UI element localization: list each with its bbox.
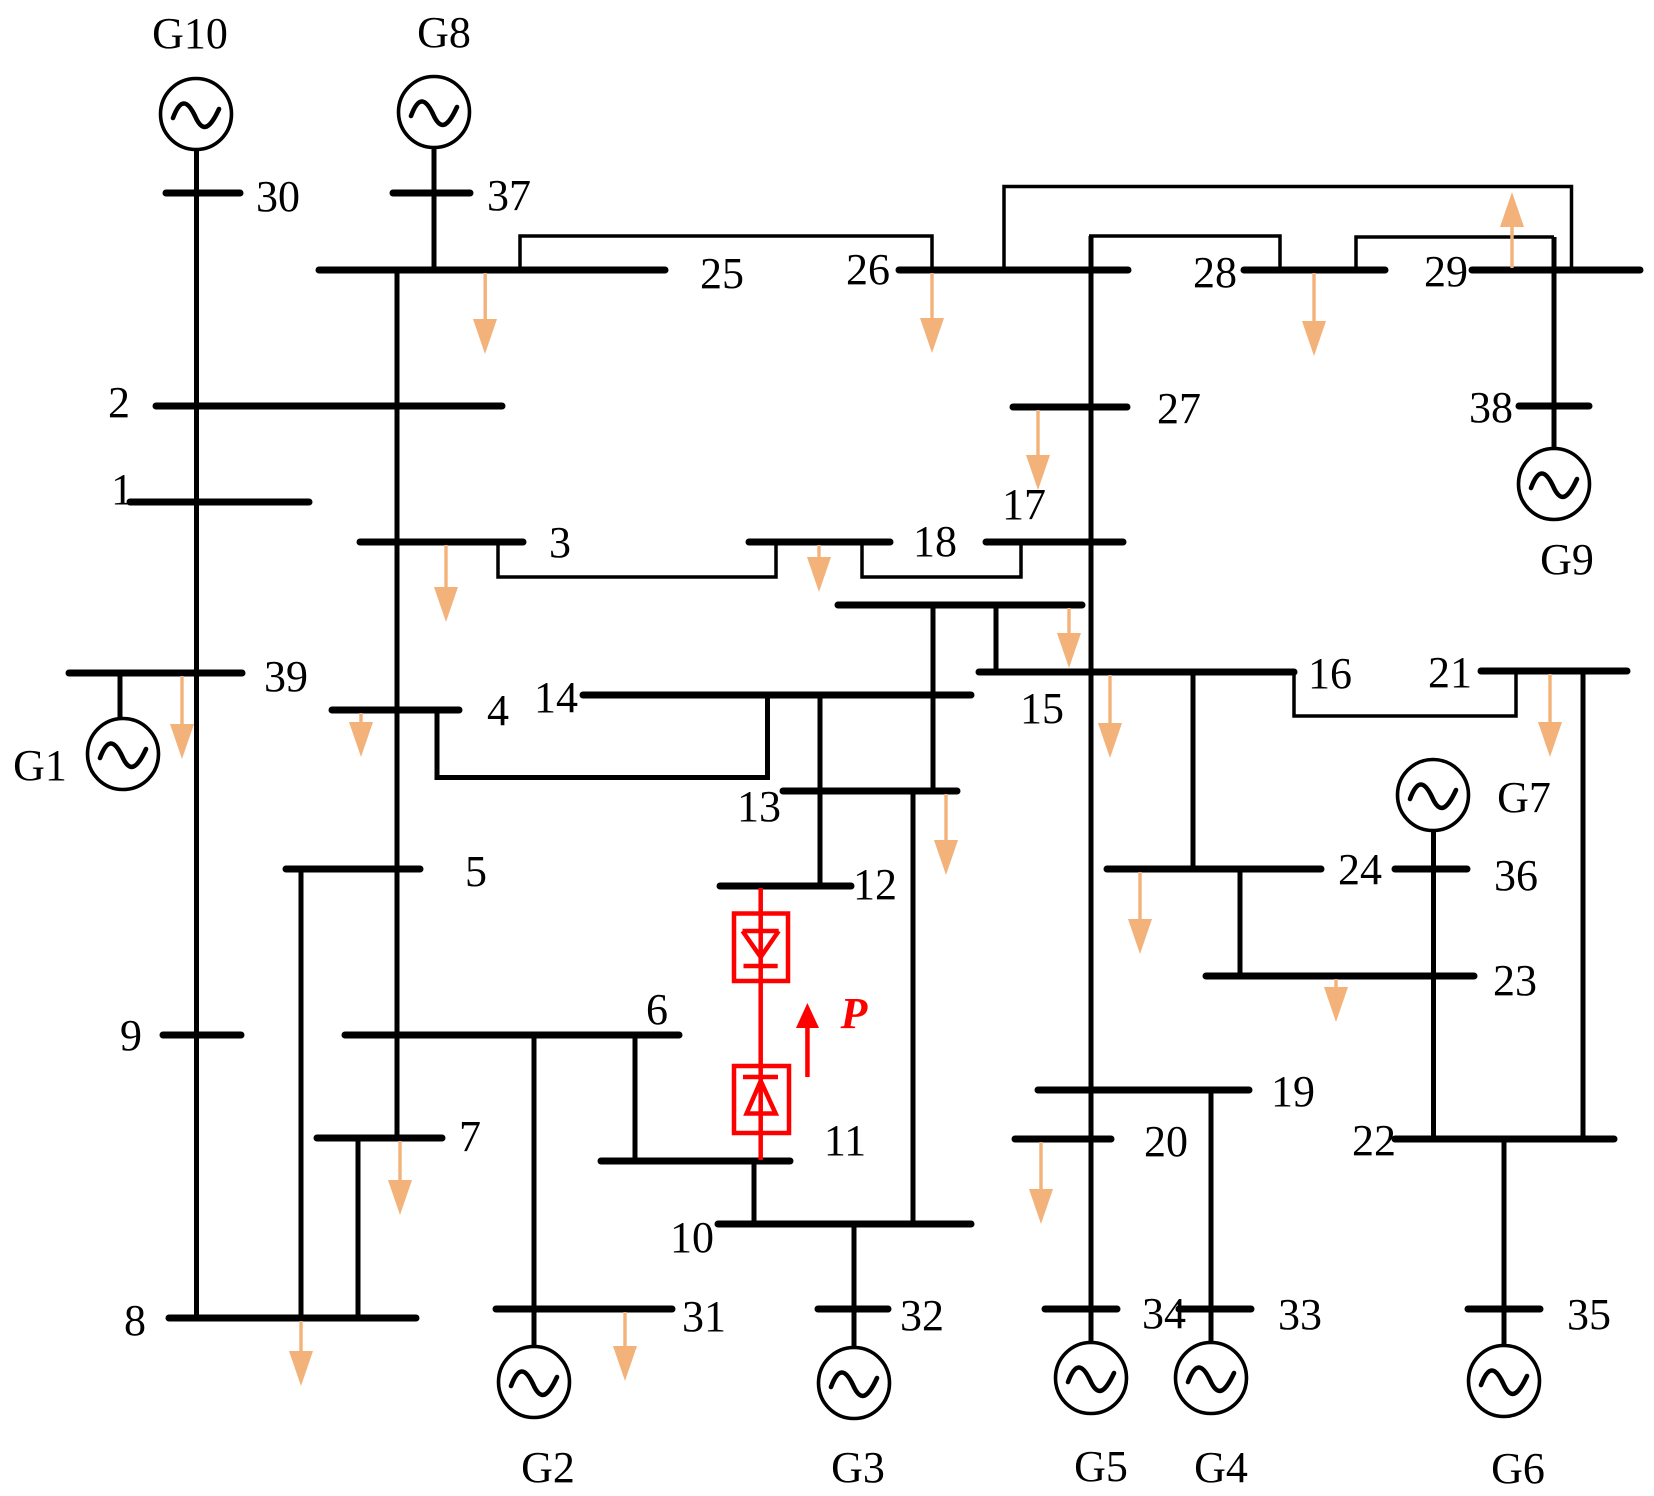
svg-text:29: 29: [1424, 247, 1468, 296]
svg-text:26: 26: [846, 245, 890, 294]
bus 39: [69, 670, 242, 677]
wire bus 28 to bus 29: [1356, 237, 1554, 270]
svg-text:24: 24: [1338, 845, 1382, 894]
svg-text:G10: G10: [152, 9, 228, 58]
bus 15 upper bar: [838, 602, 1082, 609]
bus 31: [496, 1306, 672, 1313]
bus 3: [360, 539, 523, 546]
bus 18: [749, 539, 890, 546]
svg-text:8: 8: [124, 1296, 146, 1345]
wire bus 11 to bus 10: [752, 1161, 757, 1224]
wire bus 16 to bus 21: [1294, 673, 1516, 716]
generator G5: [1056, 1343, 1127, 1414]
converter valve box upper (rectifier): [734, 914, 788, 982]
load arrow bus 29 (up): [1500, 192, 1524, 268]
generator G7: [1398, 760, 1469, 831]
wire bus 21 to bus 22: [1581, 671, 1586, 1139]
wire bus 15 upper bar to bus 16 bar: [994, 605, 999, 672]
wire bus 22 to bus 35 to G6: [1502, 1139, 1507, 1345]
wire bus 14 to bus 12 (through bus 13): [818, 695, 823, 886]
bus 21: [1481, 668, 1627, 675]
bus 25: [319, 267, 665, 274]
bus 7: [317, 1135, 442, 1142]
svg-text:16: 16: [1308, 649, 1352, 698]
bus 19: [1038, 1087, 1249, 1094]
wire bus 6 to bus 11: [633, 1035, 638, 1161]
wire bus 10 to bus 32 to G3: [852, 1224, 857, 1347]
wire G10 to bus 8 (through buses 30,2,1,39,9): [194, 150, 199, 1318]
svg-text:39: 39: [264, 652, 308, 701]
svg-text:34: 34: [1142, 1289, 1186, 1338]
generator G10: [161, 79, 232, 150]
load arrow bus 27: [1026, 410, 1050, 490]
bus 30: [166, 190, 240, 197]
svg-text:27: 27: [1157, 384, 1201, 433]
svg-text:G5: G5: [1074, 1442, 1128, 1491]
bus 29: [1472, 267, 1640, 274]
svg-text:G1: G1: [13, 741, 67, 790]
wire bus 4 to bus 14: [437, 695, 768, 778]
load arrow bus 3: [434, 545, 458, 622]
bus 5: [286, 866, 420, 873]
wire bus 12 to bus 11 (DC link): [758, 888, 763, 1160]
svg-text:25: 25: [700, 249, 744, 298]
load arrow bus 15 upper: [1057, 608, 1081, 668]
svg-text:17: 17: [1002, 480, 1046, 529]
load arrow bus 25: [473, 273, 497, 354]
svg-text:3: 3: [549, 518, 571, 567]
wire bus 6 to bus 31 to G2: [532, 1035, 537, 1346]
bus 28: [1244, 267, 1385, 274]
load arrow bus 16: [1098, 675, 1122, 758]
generator G2: [499, 1347, 570, 1418]
load arrow bus 18: [807, 545, 831, 592]
wire bus 26 to bus 29 (top long line): [1004, 187, 1572, 271]
svg-text:23: 23: [1493, 956, 1537, 1005]
bus 32: [818, 1306, 888, 1313]
wire bus 26 to G5 (through buses 27,17,16,19,20,34): [1089, 236, 1094, 1342]
bus 27: [1013, 404, 1127, 411]
wire bus 19 to bus 33 to G4: [1209, 1090, 1214, 1342]
generator G8: [399, 77, 470, 148]
wire bus 3 to bus 18: [498, 543, 776, 577]
svg-text:31: 31: [682, 1292, 726, 1341]
svg-text:18: 18: [913, 517, 957, 566]
svg-text:36: 36: [1494, 851, 1538, 900]
wire bus 29 link down to bus 38 and G9: [1552, 237, 1557, 450]
svg-text:G2: G2: [521, 1443, 575, 1492]
load arrow bus 39: [170, 676, 194, 759]
generator G6: [1469, 1346, 1540, 1417]
bus 34: [1045, 1306, 1117, 1313]
wire bus 18 to bus 17: [862, 543, 1021, 577]
load arrow bus 24: [1128, 872, 1152, 954]
wire bus 5 to bus 8: [299, 869, 304, 1318]
svg-text:32: 32: [900, 1291, 944, 1340]
bus 36: [1395, 866, 1467, 873]
bus 14: [583, 692, 971, 699]
svg-text:30: 30: [256, 172, 300, 221]
wire bus 25 to bus 26: [520, 236, 932, 270]
wire bus 7 to bus 8: [356, 1138, 361, 1318]
svg-text:33: 33: [1278, 1290, 1322, 1339]
svg-text:28: 28: [1193, 248, 1237, 297]
bus 13: [783, 788, 957, 795]
load arrow bus 26: [920, 273, 944, 353]
bus 11: [601, 1158, 790, 1165]
converter valve box lower (inverter): [734, 1066, 789, 1133]
generator G1: [88, 719, 159, 790]
svg-text:6: 6: [646, 985, 668, 1034]
bus 6: [345, 1032, 679, 1039]
svg-text:12: 12: [853, 860, 897, 909]
load arrow bus 20: [1029, 1142, 1053, 1224]
svg-text:11: 11: [824, 1116, 866, 1165]
svg-text:10: 10: [670, 1213, 714, 1262]
svg-text:37: 37: [487, 171, 531, 220]
wire G7 to bus 22 (through buses 36,23): [1431, 830, 1436, 1139]
bus 26: [899, 267, 1128, 274]
bus 24: [1107, 866, 1321, 873]
load arrow bus 13: [934, 794, 958, 875]
bus 17: [986, 539, 1123, 546]
load arrow bus 28: [1302, 273, 1326, 356]
svg-text:G8: G8: [417, 8, 471, 57]
svg-text:15: 15: [1020, 684, 1064, 733]
bus 12: [720, 883, 851, 890]
svg-text:35: 35: [1567, 1290, 1611, 1339]
load arrow bus 7: [388, 1141, 412, 1215]
bus 2: [156, 403, 502, 410]
load arrow bus 31: [613, 1312, 637, 1381]
wire G8 to bus 25 (through bus 37): [432, 148, 437, 270]
wire bus 24 to bus 23: [1238, 869, 1243, 976]
wire bus 16 to bus 24: [1191, 672, 1196, 869]
load arrow bus 4: [349, 713, 373, 757]
svg-text:7: 7: [459, 1112, 481, 1161]
bus 37: [393, 190, 470, 197]
bus 20: [1015, 1136, 1111, 1143]
svg-text:21: 21: [1428, 648, 1472, 697]
svg-text:G4: G4: [1194, 1443, 1248, 1492]
svg-text:38: 38: [1469, 383, 1513, 432]
generator G4: [1176, 1343, 1247, 1414]
generator G3: [819, 1348, 890, 1419]
svg-text:G7: G7: [1497, 773, 1551, 822]
bus 35: [1468, 1306, 1540, 1313]
bus 8: [169, 1315, 416, 1322]
svg-text:G6: G6: [1491, 1444, 1545, 1493]
wire bus 25 to bus 7 (through buses 2,3,5,6): [395, 270, 400, 1138]
svg-text:4: 4: [487, 686, 509, 735]
svg-text:1: 1: [111, 465, 133, 514]
bus 38: [1519, 403, 1589, 410]
svg-text:G9: G9: [1540, 535, 1594, 584]
svg-text:20: 20: [1144, 1117, 1188, 1166]
svg-text:14: 14: [534, 673, 578, 722]
bus 9: [163, 1032, 241, 1039]
bus 1: [130, 499, 309, 506]
svg-text:22: 22: [1352, 1116, 1396, 1165]
load arrow bus 8: [289, 1321, 313, 1386]
power flow arrow P: [796, 1003, 819, 1077]
bus 4: [332, 707, 459, 714]
svg-text:P: P: [840, 989, 869, 1038]
bus 10: [718, 1221, 971, 1228]
svg-text:13: 13: [737, 782, 781, 831]
bus 22: [1395, 1136, 1614, 1143]
wire bus 39 to G1: [118, 673, 123, 719]
load arrow bus 21: [1538, 674, 1562, 757]
wire bus 13 to bus 10: [911, 791, 916, 1224]
generator G9: [1519, 449, 1590, 520]
svg-text:G3: G3: [831, 1443, 885, 1492]
svg-text:5: 5: [465, 847, 487, 896]
bus 33: [1179, 1306, 1251, 1313]
wire bus 15 upper bar to bus 13 (through bus 14): [931, 605, 936, 791]
svg-text:9: 9: [120, 1011, 142, 1060]
svg-text:19: 19: [1271, 1067, 1315, 1116]
load arrow bus 23: [1324, 979, 1348, 1022]
bus 23: [1206, 973, 1474, 980]
svg-text:2: 2: [108, 378, 130, 427]
wire bus 26 to bus 28: [1089, 236, 1280, 270]
bus 16: [979, 669, 1294, 676]
